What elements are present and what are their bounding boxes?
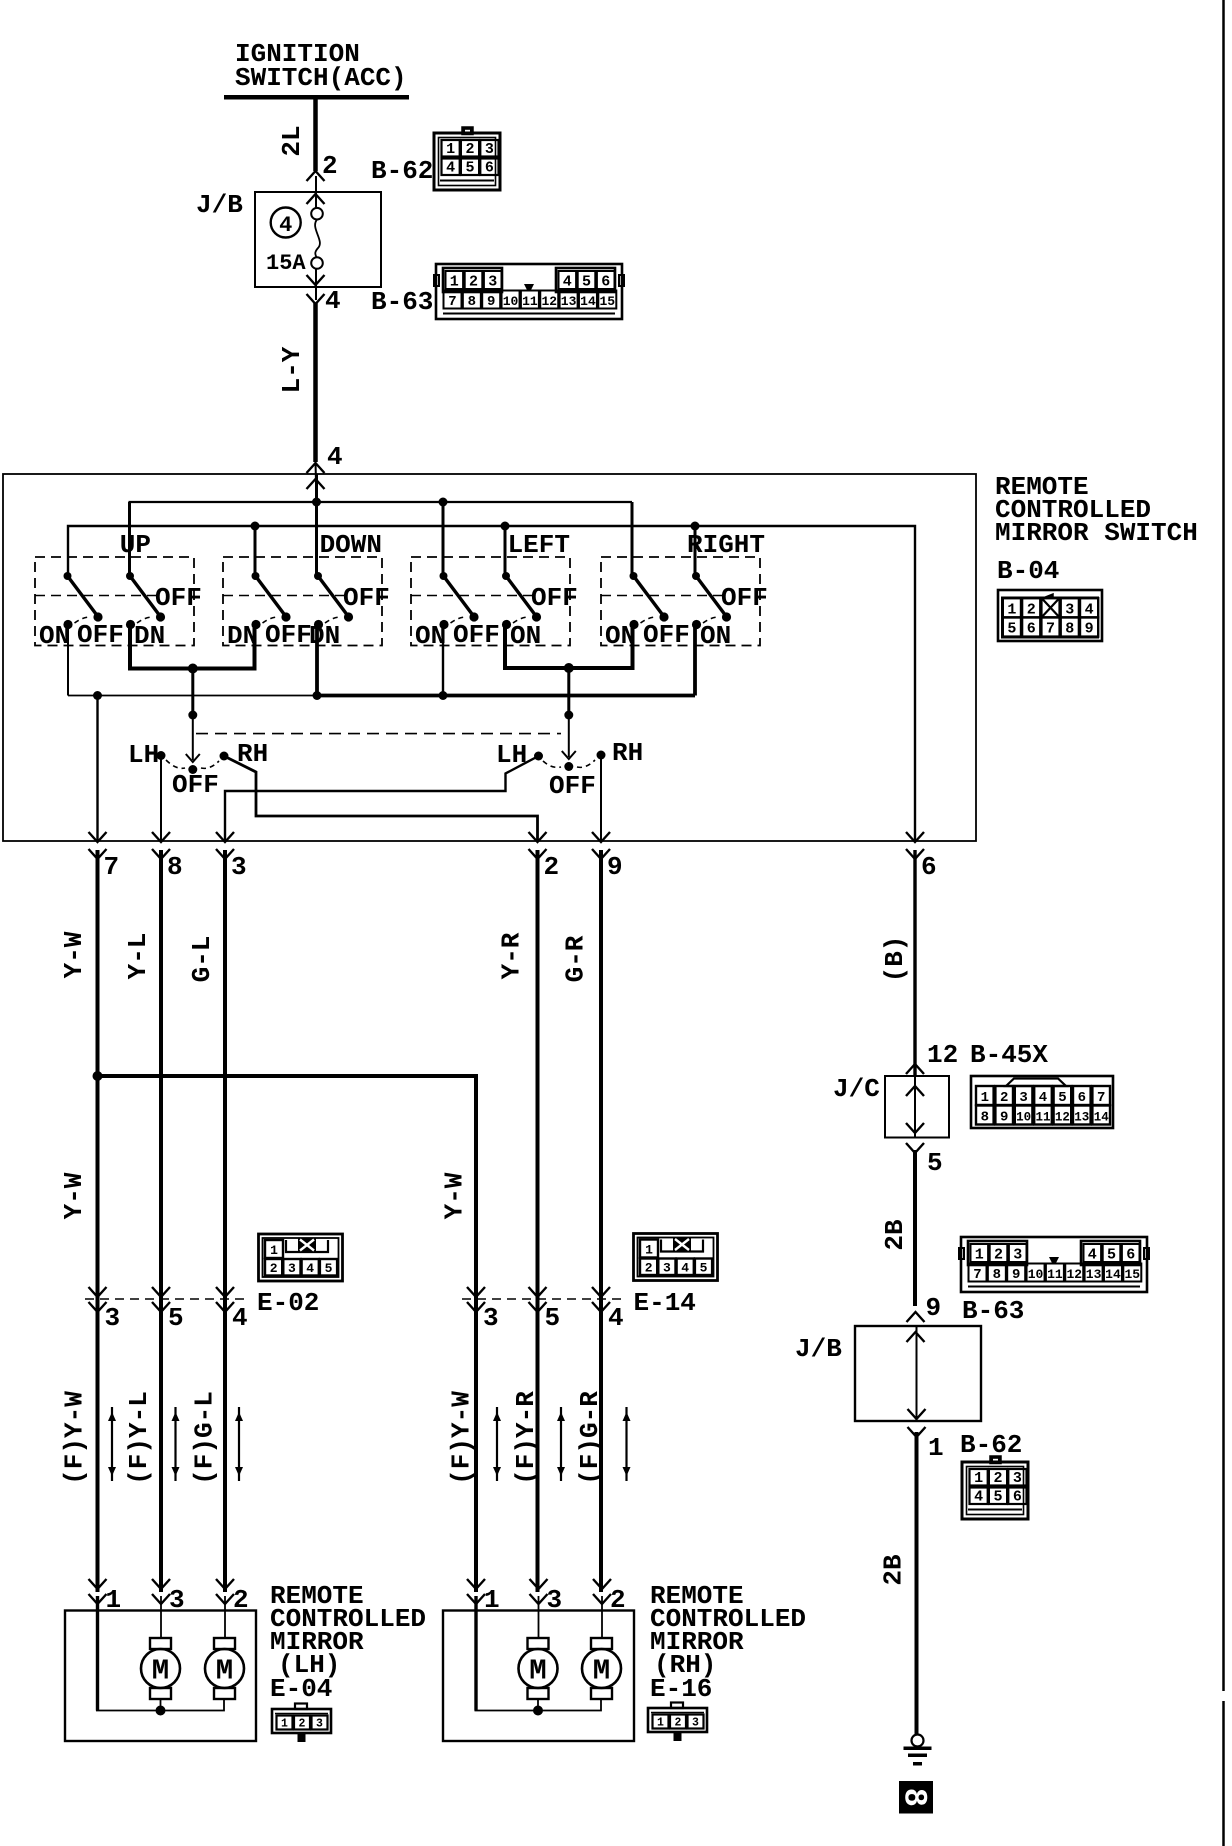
svg-text:3: 3 xyxy=(485,141,494,158)
svg-text:1: 1 xyxy=(1007,602,1016,619)
dashed mechanical link between selectors xyxy=(196,733,561,735)
drop DOWN right contact to return bus xyxy=(315,625,319,696)
switch DOWN left contact set xyxy=(251,572,290,629)
wire RH selector common lower xyxy=(568,715,570,757)
svg-text:14: 14 xyxy=(580,294,596,309)
svg-text:OFF: OFF xyxy=(77,620,124,650)
wire (B) from pin 6 xyxy=(913,850,916,1076)
svg-text:5: 5 xyxy=(465,160,474,177)
wire inside J/B second xyxy=(916,1326,918,1421)
connector arrows at B-04 pin 6 xyxy=(906,832,924,842)
junction node on bus A xyxy=(312,498,321,507)
wire pin2 to horizontal motor (RH) xyxy=(601,1596,603,1638)
svg-text:4: 4 xyxy=(306,1261,314,1276)
svg-text:B-63: B-63 xyxy=(371,287,433,317)
connector B-62 pinout icon xyxy=(434,128,500,191)
svg-text:B-04: B-04 xyxy=(997,556,1059,586)
component name REMOTE CONTROLLED MIRROR (RH) xyxy=(650,1581,806,1704)
wire vertical motor to common (LH) xyxy=(160,1699,162,1711)
connector arrows at B-62 pin 1 xyxy=(908,1409,926,1419)
wire to LH selector common xyxy=(191,669,194,716)
svg-text:9: 9 xyxy=(607,852,623,882)
wire motor common bus (LH) xyxy=(96,1699,224,1711)
svg-text:5: 5 xyxy=(993,1489,1002,1506)
svg-text:10: 10 xyxy=(1016,1111,1031,1125)
selector 2 RH contact xyxy=(597,751,606,760)
svg-text:5: 5 xyxy=(545,1303,561,1333)
svg-text:ON: ON xyxy=(415,621,446,651)
svg-text:3: 3 xyxy=(1019,1090,1027,1106)
svg-text:5: 5 xyxy=(1107,1247,1116,1264)
svg-text:8: 8 xyxy=(468,294,476,310)
svg-text:5: 5 xyxy=(1058,1090,1066,1106)
feed bus wire B xyxy=(68,526,915,841)
switch section LEFT inner dashed line xyxy=(411,595,532,597)
svg-text:3: 3 xyxy=(1013,1247,1022,1264)
wire pin1 drop inside (RH) xyxy=(474,1596,477,1711)
svg-text:1: 1 xyxy=(446,141,455,158)
switch LEFT right contact set xyxy=(502,572,541,629)
wire selector2 RH to pin 9 xyxy=(600,755,602,841)
connector arrows at E-14 pin 5 xyxy=(529,1287,547,1297)
switch section RIGHT dashed box xyxy=(601,557,760,646)
svg-text:7: 7 xyxy=(448,294,456,310)
svg-text:3: 3 xyxy=(288,1261,296,1276)
svg-text:M: M xyxy=(529,1655,546,1688)
svg-text:E-04: E-04 xyxy=(270,1674,332,1704)
svg-text:5: 5 xyxy=(1007,621,1016,638)
svg-text:13: 13 xyxy=(1074,1111,1089,1125)
arrow at RH selector common xyxy=(562,751,576,759)
svg-text:12: 12 xyxy=(927,1040,958,1070)
remote controlled mirror switch outline B-04 xyxy=(3,474,976,841)
junction block J/B second box xyxy=(855,1326,981,1421)
svg-text:10: 10 xyxy=(503,294,519,309)
svg-text:M: M xyxy=(593,1655,610,1688)
svg-text:15: 15 xyxy=(599,294,615,309)
node RH selector common contact xyxy=(564,762,573,771)
connector arrows at E-16 pin 1 xyxy=(467,1579,485,1589)
svg-text:1: 1 xyxy=(981,1090,989,1106)
svg-text:4: 4 xyxy=(232,1303,248,1333)
svg-text:2: 2 xyxy=(610,1585,626,1615)
connector E-16 pinout icon xyxy=(648,1703,707,1741)
wire 2L from ignition switch xyxy=(313,97,318,171)
svg-text:8: 8 xyxy=(981,1110,989,1126)
connector arrows at E-02 pin 3 xyxy=(89,1287,107,1297)
svg-text:(F)Y-R: (F)Y-R xyxy=(511,1391,541,1485)
svg-text:6: 6 xyxy=(601,274,610,291)
right page border line xyxy=(1222,0,1225,1846)
svg-text:9: 9 xyxy=(926,1293,942,1323)
svg-text:2: 2 xyxy=(544,852,560,882)
junction node motor common (RH) xyxy=(533,1706,543,1716)
svg-text:Y-W: Y-W xyxy=(59,1172,89,1219)
svg-text:8: 8 xyxy=(993,1267,1001,1283)
svg-text:G-R: G-R xyxy=(561,935,591,982)
feed drop to RIGHT box right switch xyxy=(694,526,697,576)
drop RIGHT right contact to return bus xyxy=(693,625,697,696)
svg-text:1: 1 xyxy=(928,1433,944,1463)
svg-text:8: 8 xyxy=(896,1788,933,1807)
svg-text:4: 4 xyxy=(608,1303,624,1333)
connector arrows entering mirror switch pin 4 xyxy=(307,463,325,473)
svg-text:DN: DN xyxy=(309,621,340,651)
wire pin3 to vertical motor (LH) xyxy=(160,1596,162,1638)
direction arrow beside (F)G-L xyxy=(235,1407,243,1481)
svg-text:7: 7 xyxy=(1046,621,1055,638)
wire pin2 to horizontal motor (LH) xyxy=(224,1596,226,1638)
connector arrows at B-45X pin 12 xyxy=(906,1064,924,1074)
feed drop to UP box right switch xyxy=(128,502,131,577)
svg-text:LH: LH xyxy=(128,740,159,770)
svg-text:(B): (B) xyxy=(880,936,910,983)
svg-text:4: 4 xyxy=(1088,1247,1097,1264)
selector 2 LH contact xyxy=(534,752,543,761)
svg-text:4: 4 xyxy=(974,1489,983,1506)
connector B-63 pinout icon xyxy=(434,264,624,319)
svg-text:11: 11 xyxy=(1047,1267,1063,1282)
svg-text:15A: 15A xyxy=(266,251,306,276)
component name REMOTE CONTROLLED MIRROR (LH) xyxy=(270,1581,426,1704)
motor M vertical (LH) xyxy=(141,1638,180,1699)
wire LEFT/RIGHT output bus xyxy=(505,625,633,669)
connector B-45X pinout icon xyxy=(971,1076,1113,1128)
svg-text:1: 1 xyxy=(106,1585,122,1615)
svg-text:B-63: B-63 xyxy=(962,1296,1024,1326)
motor M horizontal (LH) xyxy=(205,1638,244,1699)
selector 1 RH contact xyxy=(220,752,229,761)
drop LEFT left contact to return bus xyxy=(442,625,444,696)
svg-text:OFF: OFF xyxy=(265,620,312,650)
remote controlled mirror (RH) box xyxy=(443,1611,634,1742)
svg-text:B-45X: B-45X xyxy=(970,1040,1048,1070)
svg-text:DOWN: DOWN xyxy=(320,530,382,560)
svg-text:9: 9 xyxy=(487,294,495,310)
svg-text:4: 4 xyxy=(325,286,341,316)
svg-text:5: 5 xyxy=(168,1303,184,1333)
wire inside J/B below fuse xyxy=(315,269,317,300)
wire pin3 to vertical motor (RH) xyxy=(538,1596,540,1638)
svg-text:4: 4 xyxy=(563,274,572,291)
selector 1 LH contact xyxy=(157,751,166,760)
wire Y-R from pin 2 xyxy=(536,850,540,1592)
svg-text:7: 7 xyxy=(973,1267,981,1283)
svg-text:3: 3 xyxy=(316,1718,323,1731)
wire L-Y xyxy=(313,303,318,462)
wire Y-L from pin 8 xyxy=(159,850,163,1592)
connector B-04 pinout icon xyxy=(998,590,1102,641)
svg-text:5: 5 xyxy=(325,1261,333,1276)
wire inside J/B above fuse xyxy=(315,176,317,208)
junction node UP/DOWN bus xyxy=(188,664,198,674)
svg-text:OFF: OFF xyxy=(643,620,690,650)
svg-text:2: 2 xyxy=(645,1261,653,1276)
power source bus bar xyxy=(224,95,409,100)
wire LH selector common lower xyxy=(192,715,194,760)
node LH selector common contact xyxy=(188,765,197,774)
connector arrows at E-02 pin 5 xyxy=(152,1287,170,1297)
svg-text:3: 3 xyxy=(231,852,247,882)
component name REMOTE CONTROLLED MIRROR SWITCH xyxy=(995,472,1198,548)
svg-text:3: 3 xyxy=(1013,1470,1022,1487)
svg-text:4: 4 xyxy=(327,442,343,472)
switch RIGHT left contact set xyxy=(629,572,668,629)
svg-text:2: 2 xyxy=(993,1470,1002,1487)
svg-text:3: 3 xyxy=(483,1303,499,1333)
drop UP left contact to return bus xyxy=(67,625,69,696)
svg-text:Y-W: Y-W xyxy=(440,1172,470,1219)
connector E-14 dashed line xyxy=(462,1298,625,1300)
motor M horizontal (RH) xyxy=(582,1638,621,1699)
connector arrows at E-04 pin 2 xyxy=(216,1579,234,1589)
common return bus thick segment xyxy=(317,694,695,698)
common return bus thin segment xyxy=(68,695,317,697)
svg-text:OFF: OFF xyxy=(549,771,596,801)
svg-text:2: 2 xyxy=(994,1247,1003,1264)
connector arrows at B-04 pin 7 xyxy=(89,832,107,842)
svg-text:RIGHT: RIGHT xyxy=(687,530,765,560)
junction node bus A to LEFT switch xyxy=(439,498,448,507)
junction connector J/C box xyxy=(885,1076,949,1138)
svg-text:4: 4 xyxy=(446,160,455,177)
connector arrows at B-04 pin 2 xyxy=(529,832,547,842)
svg-text:ON: ON xyxy=(700,621,731,651)
fuse number 4 circled xyxy=(271,208,301,239)
svg-text:(F)Y-L: (F)Y-L xyxy=(124,1391,154,1485)
svg-text:4: 4 xyxy=(279,213,292,238)
svg-text:RH: RH xyxy=(612,738,643,768)
connector E-02 dashed line xyxy=(85,1298,244,1300)
connector arrows at B-04 pin 3 xyxy=(216,832,234,842)
junction node RH selector common top xyxy=(564,711,573,720)
direction arrow beside (F)Y-L xyxy=(172,1407,180,1481)
fuse 4 symbol xyxy=(311,208,323,269)
svg-text:14: 14 xyxy=(1094,1111,1110,1125)
svg-text:M: M xyxy=(152,1655,169,1688)
svg-text:14: 14 xyxy=(1105,1267,1121,1282)
junction node LH selector common top xyxy=(188,711,197,720)
svg-text:3: 3 xyxy=(547,1585,563,1615)
svg-text:3: 3 xyxy=(663,1261,671,1276)
svg-text:OFF: OFF xyxy=(155,583,202,613)
connector E-14 pinout icon xyxy=(634,1234,718,1281)
wire Y-W branch to RH mirror xyxy=(98,1076,477,1592)
svg-text:5: 5 xyxy=(927,1148,943,1178)
connector arrows at B-04 pin 9 xyxy=(592,832,610,842)
svg-text:J/C: J/C xyxy=(833,1074,880,1104)
wire 2B upper xyxy=(913,1150,917,1306)
svg-text:1: 1 xyxy=(281,1718,288,1731)
svg-text:9: 9 xyxy=(1085,621,1094,638)
svg-text:OFF: OFF xyxy=(343,583,390,613)
svg-text:6: 6 xyxy=(1126,1247,1135,1264)
svg-text:2: 2 xyxy=(299,1718,306,1731)
direction arrow beside (F)Y-W xyxy=(108,1407,116,1481)
connector arrows at E-16 pin 2 xyxy=(593,1579,611,1589)
svg-text:5: 5 xyxy=(582,274,591,291)
wire selector1 LH to pin 8 xyxy=(160,756,162,842)
svg-text:OFF: OFF xyxy=(531,583,578,613)
motor M vertical (RH) xyxy=(519,1638,558,1699)
svg-text:E-16: E-16 xyxy=(650,1674,712,1704)
svg-text:9: 9 xyxy=(1000,1110,1008,1126)
junction node bus B to LEFT switch xyxy=(501,522,510,531)
wire motor common bus (RH) xyxy=(475,1699,602,1711)
connector arrows at B-63 pin 9 xyxy=(907,1312,925,1322)
switch DOWN right contact set xyxy=(314,572,353,629)
wire Y-W from pin 7 xyxy=(96,850,100,1592)
svg-text:1: 1 xyxy=(484,1585,500,1615)
svg-text:2L: 2L xyxy=(277,125,307,156)
svg-text:6: 6 xyxy=(485,160,494,177)
svg-text:OFF: OFF xyxy=(721,583,768,613)
remote controlled mirror (LH) box xyxy=(65,1611,256,1742)
wire G-L from pin 3 xyxy=(223,850,227,1592)
junction node bus B to DOWN switch xyxy=(251,522,260,531)
svg-text:OFF: OFF xyxy=(453,620,500,650)
wire pin1 drop inside (LH) xyxy=(96,1596,99,1711)
switch RIGHT right contact set xyxy=(692,572,731,629)
svg-text:6: 6 xyxy=(1078,1090,1086,1106)
svg-text:3: 3 xyxy=(488,274,497,291)
switch section UP inner dashed line xyxy=(35,595,156,597)
feed drop to DOWN box left switch xyxy=(254,526,257,577)
svg-text:4: 4 xyxy=(1039,1090,1047,1106)
power source IGNITION SWITCH (ACC) label xyxy=(235,39,407,93)
svg-text:J/B: J/B xyxy=(196,190,243,220)
connector arrows at B-63 pin 4 xyxy=(307,275,325,285)
svg-text:(F)Y-W: (F)Y-W xyxy=(447,1391,477,1485)
svg-text:2: 2 xyxy=(270,1261,278,1276)
ground symbol xyxy=(904,1735,932,1766)
connector E-04 pinout icon xyxy=(272,1704,331,1742)
svg-text:E-02: E-02 xyxy=(257,1288,319,1318)
arrow at LH selector common xyxy=(186,754,200,762)
svg-text:12: 12 xyxy=(1055,1111,1070,1125)
svg-text:ON: ON xyxy=(510,621,541,651)
svg-text:M: M xyxy=(216,1655,233,1688)
connector E-02 pinout icon xyxy=(259,1234,343,1281)
svg-text:(F)G-L: (F)G-L xyxy=(190,1391,220,1485)
svg-text:7: 7 xyxy=(1097,1090,1105,1106)
switch section LEFT dashed box xyxy=(411,557,570,646)
junction node return bus DOWN xyxy=(313,691,322,700)
svg-text:OFF: OFF xyxy=(172,770,219,800)
svg-text:12: 12 xyxy=(1066,1267,1082,1282)
svg-text:8: 8 xyxy=(167,852,183,882)
svg-text:J/B: J/B xyxy=(795,1334,842,1364)
svg-text:2: 2 xyxy=(1027,602,1036,619)
svg-text:6: 6 xyxy=(921,852,937,882)
connector arrows below J/C xyxy=(906,1123,924,1133)
svg-text:UP: UP xyxy=(120,530,151,560)
svg-text:2: 2 xyxy=(233,1585,249,1615)
svg-text:13: 13 xyxy=(561,294,577,309)
svg-text:G-L: G-L xyxy=(187,936,217,983)
selector 2 wiper dashes xyxy=(543,760,595,767)
svg-text:L-Y: L-Y xyxy=(277,346,307,393)
svg-text:1: 1 xyxy=(270,1243,278,1258)
feed drop to LEFT box right switch xyxy=(504,526,507,576)
connector arrows at E-14 pin 3 xyxy=(467,1287,485,1297)
svg-text:2: 2 xyxy=(1000,1090,1008,1106)
svg-text:12: 12 xyxy=(541,294,557,309)
svg-text:Y-R: Y-R xyxy=(497,932,527,979)
svg-text:Y-L: Y-L xyxy=(123,933,153,980)
connector arrows at B-04 pin 8 xyxy=(152,832,170,842)
connector B-62 second pinout icon xyxy=(962,1457,1028,1520)
switch LEFT left contact set xyxy=(439,572,478,629)
junction node return bus pin7 xyxy=(93,691,102,700)
switch section DOWN dashed box xyxy=(223,557,382,646)
feed drop to RIGHT box left switch xyxy=(631,502,634,577)
switch UP left contact set xyxy=(63,572,102,629)
junction block J/B box xyxy=(255,192,381,287)
svg-text:3: 3 xyxy=(1065,602,1074,619)
switch section DOWN inner dashed line xyxy=(223,595,344,597)
connector arrows at E-02 pin 4 xyxy=(216,1287,234,1297)
junction node Y-W branch xyxy=(93,1071,103,1081)
direction arrow beside (F)Y-W xyxy=(493,1407,501,1481)
junction node bus B to RIGHT switch xyxy=(691,522,700,531)
svg-text:1: 1 xyxy=(657,1717,664,1730)
svg-text:3: 3 xyxy=(169,1585,185,1615)
ground reference mark 8 xyxy=(896,1781,934,1814)
svg-text:9: 9 xyxy=(1012,1267,1020,1283)
wire G-R from pin 9 xyxy=(599,850,603,1592)
svg-text:3: 3 xyxy=(105,1303,121,1333)
svg-text:MIRROR SWITCH: MIRROR SWITCH xyxy=(995,518,1198,548)
wire L-Y thin tail xyxy=(316,462,317,502)
direction arrow beside (F)Y-R xyxy=(557,1407,565,1481)
direction arrow beside (F)G-R xyxy=(623,1407,631,1481)
svg-text:2B: 2B xyxy=(880,1219,910,1251)
switch section RIGHT inner dashed line xyxy=(601,595,722,597)
svg-text:2: 2 xyxy=(322,151,338,181)
feed drop to LEFT box left switch xyxy=(442,502,445,577)
svg-text:11: 11 xyxy=(1035,1111,1050,1125)
svg-text:Y-W: Y-W xyxy=(59,931,89,978)
svg-text:LEFT: LEFT xyxy=(508,530,570,560)
svg-text:1: 1 xyxy=(450,274,459,291)
svg-text:11: 11 xyxy=(522,294,538,309)
svg-text:(F)G-R: (F)G-R xyxy=(575,1391,605,1485)
junction node motor common (LH) xyxy=(156,1706,166,1716)
wire to RH selector common xyxy=(567,668,570,715)
selector 1 wiper dashes xyxy=(166,760,219,768)
svg-text:B-62: B-62 xyxy=(371,156,433,186)
svg-text:4: 4 xyxy=(681,1261,689,1276)
svg-text:1: 1 xyxy=(974,1470,983,1487)
wire inside J/C xyxy=(914,1076,916,1138)
svg-text:2: 2 xyxy=(675,1717,682,1730)
connector B-63 second pinout icon xyxy=(959,1237,1149,1292)
svg-text:4: 4 xyxy=(1085,602,1094,619)
switch section UP dashed box xyxy=(35,557,194,646)
wire UP/DOWN output bus xyxy=(130,625,255,669)
svg-text:2: 2 xyxy=(465,141,474,158)
svg-text:(F)Y-W: (F)Y-W xyxy=(60,1391,90,1485)
wire vertical motor to common (RH) xyxy=(537,1699,539,1711)
switch UP right contact set xyxy=(126,572,165,629)
svg-text:15: 15 xyxy=(1124,1267,1140,1282)
svg-text:2: 2 xyxy=(469,274,478,291)
connector arrows at E-16 pin 3 xyxy=(530,1579,548,1589)
svg-text:1: 1 xyxy=(975,1247,984,1264)
svg-text:1: 1 xyxy=(645,1243,653,1258)
junction node LEFT/RIGHT bus xyxy=(564,663,574,673)
